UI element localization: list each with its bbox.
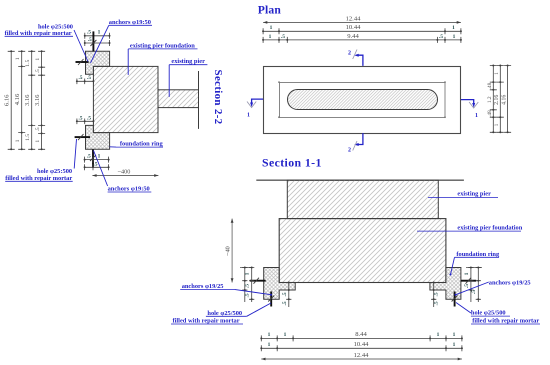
anchor rod left horizontal xyxy=(250,280,266,282)
svg-text:hole φ25/500: hole φ25/500 xyxy=(207,310,242,317)
section cut marker 1 (right) xyxy=(461,100,474,106)
plan inner rectangle xyxy=(280,83,446,118)
leader hole right xyxy=(456,303,471,314)
plan dim 1/.5/9.44/.5/1 xyxy=(263,39,461,41)
plan dim .48/1.2/.48 xyxy=(492,66,494,133)
mini dim row .5/.5 upper left xyxy=(77,80,94,82)
svg-text:1: 1 xyxy=(269,34,272,40)
svg-text:filled with repair mortar: filled with repair mortar xyxy=(173,318,240,325)
dim 1/10.44/1 xyxy=(261,347,462,349)
leader hole left xyxy=(247,303,271,316)
svg-text:1: 1 xyxy=(35,58,41,61)
dim 12.44 xyxy=(261,358,462,360)
svg-text:1: 1 xyxy=(98,153,101,159)
svg-text:8.44: 8.44 xyxy=(355,331,367,338)
plan pier stadium outline xyxy=(288,90,438,110)
svg-text:.48: .48 xyxy=(487,110,493,117)
svg-text:filled with repair mortar: filled with repair mortar xyxy=(5,30,72,37)
svg-text:10.44: 10.44 xyxy=(354,341,370,348)
bottom mini dim right .5/.5 xyxy=(433,283,435,308)
svg-text:1: 1 xyxy=(98,30,101,36)
existing pier foundation (Section 2-2 square) xyxy=(93,66,158,132)
anchor rod right vertical xyxy=(454,292,456,307)
left mini dim lines xyxy=(240,267,252,269)
svg-text:.5: .5 xyxy=(464,284,470,288)
anchor rod top (Section 2-2) xyxy=(92,31,94,51)
svg-text:.5: .5 xyxy=(35,127,41,131)
svg-text:.5: .5 xyxy=(79,115,83,121)
existing pier foundation (Section 1-1) xyxy=(279,219,446,283)
svg-text:.5: .5 xyxy=(87,115,91,121)
svg-text:.5: .5 xyxy=(434,292,440,296)
svg-text:1: 1 xyxy=(268,332,271,338)
svg-text:1: 1 xyxy=(437,332,440,338)
svg-text:hole φ25/500: hole φ25/500 xyxy=(471,310,506,317)
svg-text:1: 1 xyxy=(270,25,273,31)
svg-text:.5: .5 xyxy=(245,293,251,297)
right mini dim lines xyxy=(466,267,482,269)
svg-text:9.44: 9.44 xyxy=(347,33,359,40)
svg-text:.5: .5 xyxy=(282,301,288,305)
existing pier (Section 2-2 bar) xyxy=(158,90,199,108)
svg-text:6.16: 6.16 xyxy=(4,94,11,106)
svg-text:1: 1 xyxy=(35,140,41,143)
plan dim 1/2.16/1 xyxy=(499,66,501,133)
svg-text:2: 2 xyxy=(348,51,351,57)
foundation ring top block (Section 2-2) xyxy=(86,51,110,74)
svg-text:.5: .5 xyxy=(87,153,91,159)
svg-text:1: 1 xyxy=(245,272,251,275)
svg-text:~40: ~40 xyxy=(225,246,232,256)
svg-text:1: 1 xyxy=(268,342,271,348)
svg-text:filled with repair mortar: filled with repair mortar xyxy=(5,175,72,182)
svg-text:existing pier foundation: existing pier foundation xyxy=(130,42,195,49)
dim 1/1/8.44/1/1 xyxy=(261,337,462,339)
svg-text:existing pier: existing pier xyxy=(457,191,491,198)
svg-text:12.44: 12.44 xyxy=(346,15,362,22)
svg-text:~400: ~400 xyxy=(118,168,131,175)
plan dim 4.16 xyxy=(507,66,509,133)
svg-text:1: 1 xyxy=(452,25,455,31)
top small dim row .5 xyxy=(85,42,110,44)
svg-text:.5: .5 xyxy=(94,161,98,167)
dim line 6.16 xyxy=(10,51,12,149)
svg-text:filled with repair mortar: filled with repair mortar xyxy=(472,318,539,325)
svg-text:4.16: 4.16 xyxy=(14,93,21,105)
section cut marker 1 (left) xyxy=(252,99,264,105)
leader anchors right xyxy=(456,282,489,295)
svg-text:anchors φ19/25: anchors φ19/25 xyxy=(182,283,224,290)
svg-text:1: 1 xyxy=(494,123,500,126)
svg-text:.5: .5 xyxy=(35,69,41,73)
svg-text:foundation ring: foundation ring xyxy=(120,141,164,148)
anchor rod side bottom (hole) xyxy=(75,136,90,138)
anchor rod bottom (Section 2-2) xyxy=(92,149,94,167)
leader existing pier foundation xyxy=(127,49,129,75)
svg-text:.5: .5 xyxy=(434,301,440,305)
svg-text:2: 2 xyxy=(348,148,351,154)
svg-text:foundation ring: foundation ring xyxy=(456,251,500,258)
svg-text:anchors φ19:50: anchors φ19:50 xyxy=(109,19,151,26)
svg-text:3.16: 3.16 xyxy=(34,94,41,106)
mini dim row .5/.5 lower left xyxy=(77,120,94,122)
svg-text:.5: .5 xyxy=(87,30,91,36)
svg-text:3.16: 3.16 xyxy=(24,94,31,106)
svg-text:1: 1 xyxy=(453,342,456,348)
anchor rod right horizontal xyxy=(461,280,476,282)
svg-text:1: 1 xyxy=(247,113,250,119)
dim ~40 xyxy=(231,219,233,283)
anchor rod left vertical xyxy=(270,292,272,307)
svg-text:.48: .48 xyxy=(487,82,493,89)
leader foundation ring (Section 1-1) xyxy=(451,257,455,274)
anchor rod side top (hole) xyxy=(76,61,89,63)
svg-text:1: 1 xyxy=(15,139,21,142)
svg-text:1: 1 xyxy=(284,332,287,338)
svg-text:.5: .5 xyxy=(439,34,443,40)
leader anchors top xyxy=(91,25,109,63)
svg-text:1: 1 xyxy=(464,272,470,275)
plan outer rectangle xyxy=(264,67,461,134)
svg-text:.5: .5 xyxy=(88,37,92,43)
svg-text:1.5: 1.5 xyxy=(25,60,31,67)
bottom small dim row .5 xyxy=(85,166,109,168)
svg-text:1: 1 xyxy=(15,57,21,60)
leader hole top xyxy=(74,30,88,62)
plan dim 12.44 xyxy=(263,21,461,23)
svg-text:Section 1-1: Section 1-1 xyxy=(262,156,322,170)
svg-text:1: 1 xyxy=(453,34,456,40)
dim line 1.5/3.16/1.5 xyxy=(31,51,33,149)
svg-text:4.16: 4.16 xyxy=(501,95,507,105)
dim line 1/4.16/1 xyxy=(21,51,23,149)
svg-text:Plan: Plan xyxy=(258,3,282,16)
leader anchors left xyxy=(234,289,271,294)
plan inner rect corner ticks xyxy=(278,81,280,83)
svg-text:.5: .5 xyxy=(281,34,285,40)
leader foundation ring xyxy=(110,146,116,148)
bottom mini dim left .5/.5 xyxy=(288,283,290,308)
section cut marker 2 (bottom) xyxy=(356,133,363,144)
ground/top line xyxy=(256,179,464,181)
svg-text:1.2: 1.2 xyxy=(487,96,493,103)
plan dim 1/10.44/1 xyxy=(263,30,461,32)
foundation ring left (Section 1-1) xyxy=(264,268,296,300)
svg-text:anchors φ19/25: anchors φ19/25 xyxy=(489,279,531,286)
svg-text:.5: .5 xyxy=(79,75,83,81)
svg-text:.5: .5 xyxy=(471,290,477,294)
svg-text:1: 1 xyxy=(475,113,478,119)
top small dim row .5/1 xyxy=(85,35,110,37)
svg-text:10.44: 10.44 xyxy=(346,24,362,31)
svg-text:1.5: 1.5 xyxy=(25,134,31,141)
foundation ring bottom block (Section 2-2) xyxy=(86,125,110,149)
bottom small dim row .5/1 xyxy=(85,159,109,161)
svg-text:.5: .5 xyxy=(245,284,251,288)
svg-text:Section 2-2: Section 2-2 xyxy=(212,70,224,125)
svg-text:1: 1 xyxy=(494,72,500,75)
leader hole bottom xyxy=(74,139,76,169)
dim ~400 xyxy=(92,175,158,177)
section cut marker 2 (top) xyxy=(356,55,363,66)
pier break line xyxy=(198,71,200,129)
svg-text:existing pier foundation: existing pier foundation xyxy=(457,225,522,232)
svg-text:2.16: 2.16 xyxy=(494,95,500,105)
svg-text:existing pier: existing pier xyxy=(171,58,205,65)
svg-text:12.44: 12.44 xyxy=(354,352,370,359)
svg-text:.5: .5 xyxy=(87,75,91,81)
foundation ring right (Section 1-1) xyxy=(430,268,461,300)
svg-text:1: 1 xyxy=(453,332,456,338)
svg-text:.5: .5 xyxy=(282,292,288,296)
svg-text:anchors φ19:50: anchors φ19:50 xyxy=(108,186,150,193)
existing pier (Section 1-1) xyxy=(287,180,438,218)
leader anchors bottom xyxy=(94,151,108,187)
dim line 1/.5/3.16/.5/1 xyxy=(41,51,43,149)
leader existing pier xyxy=(168,65,170,97)
